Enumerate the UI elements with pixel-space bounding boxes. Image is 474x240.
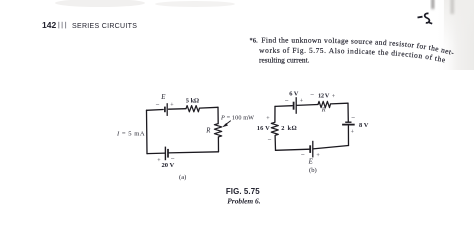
svg-text:8 V: 8 V <box>359 122 369 129</box>
svg-text:20 V: 20 V <box>162 162 175 169</box>
svg-text:E: E <box>308 159 314 166</box>
svg-text:(b): (b) <box>309 167 317 174</box>
svg-text:+: + <box>332 94 336 100</box>
svg-text:−: − <box>310 91 314 99</box>
svg-text:Problem 6.: Problem 6. <box>227 196 260 205</box>
svg-text:−: − <box>285 96 289 104</box>
svg-text:resulting current.: resulting current. <box>259 56 310 65</box>
svg-text:16 V: 16 V <box>257 125 270 132</box>
svg-text:SERIES CIRCUITS: SERIES CIRCUITS <box>72 23 137 30</box>
svg-text:−: − <box>268 136 272 144</box>
svg-text:142: 142 <box>42 20 56 30</box>
voltage source E (b) bottom: plates <box>310 141 313 158</box>
svg-text:R: R <box>205 127 211 134</box>
wire: (b) top right segment <box>331 102 349 105</box>
faint top smudge <box>55 0 235 7</box>
wire: (a) right side upper <box>217 107 219 123</box>
resistor R (b) top: zigzag <box>318 101 331 107</box>
svg-text:12 V: 12 V <box>318 92 330 99</box>
voltage source 8 V (b) right: plates <box>342 122 355 124</box>
wire: (a) top left segment <box>147 109 164 112</box>
svg-text:+: + <box>316 153 320 159</box>
wire: (a) right side lower <box>217 137 219 152</box>
wire: (b) bottom right segment <box>313 146 349 149</box>
svg-text:*6.: *6. <box>250 37 258 45</box>
wire: (a) bottom right segment <box>168 152 218 153</box>
svg-text:P = 100 mW: P = 100 mW <box>220 115 254 122</box>
svg-text:+: + <box>351 129 355 135</box>
svg-text:(a): (a) <box>179 174 186 181</box>
wire: (a) top right segment <box>200 106 219 109</box>
svg-text:2 kΩ: 2 kΩ <box>281 125 297 132</box>
wire: (b) left side lower <box>274 136 276 151</box>
wire: (a) bottom left segment <box>147 152 165 155</box>
wire: (b) top middle segment <box>297 104 319 107</box>
wire: (b) top left segment <box>275 105 292 108</box>
arrow from P label to resistor R <box>223 121 231 127</box>
svg-text:I = 5 mA: I = 5 mA <box>116 131 145 138</box>
header separator ||| <box>58 22 66 29</box>
svg-text:R: R <box>321 107 326 114</box>
svg-text:E: E <box>160 94 166 101</box>
wire: (b) right side upper <box>347 103 349 122</box>
wire: (b) bottom left segment <box>276 149 310 150</box>
handwritten mark top right <box>418 13 433 23</box>
resistor 5 kOhm (a): zigzag <box>186 106 200 112</box>
wire: (a) top middle segment <box>169 108 186 111</box>
resistor 2 kOhm (b) left: zigzag <box>271 122 278 135</box>
svg-text:FIG. 5.75: FIG. 5.75 <box>226 187 260 196</box>
wire: (b) right side lower <box>347 126 349 146</box>
svg-text:5 kΩ: 5 kΩ <box>186 97 199 104</box>
svg-text:6 V: 6 V <box>289 90 299 97</box>
resistor R (a) right side: zigzag <box>214 124 221 137</box>
svg-text:−: − <box>351 114 355 122</box>
voltage source 6 V (b) top: plates <box>294 97 297 114</box>
svg-text:+: + <box>170 103 174 109</box>
wire: (b) left side upper <box>274 106 276 122</box>
svg-text:+: + <box>300 98 304 104</box>
wire: (a) left side <box>146 110 149 153</box>
voltage source E (a) top: plates <box>165 103 167 116</box>
problem 6 text: line 1 <box>250 36 456 58</box>
svg-text:−: − <box>156 100 160 108</box>
voltage source 20 V (a) bottom: plates <box>165 147 168 161</box>
svg-text:−: − <box>301 151 305 159</box>
svg-text:+: + <box>266 116 270 122</box>
